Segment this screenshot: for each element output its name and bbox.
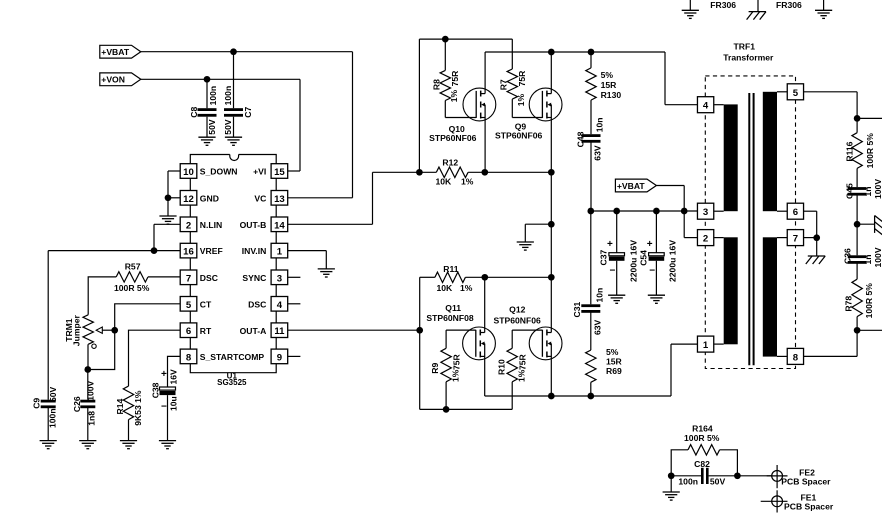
svg-text:PCB Spacer: PCB Spacer: [781, 477, 831, 487]
svg-text:+VBAT: +VBAT: [101, 47, 130, 57]
svg-text:7: 7: [793, 234, 798, 245]
svg-text:50V: 50V: [48, 386, 58, 402]
svg-text:1%: 1%: [449, 90, 459, 103]
svg-text:+VBAT: +VBAT: [617, 181, 646, 191]
svg-text:OUT-A: OUT-A: [240, 326, 267, 336]
svg-text:2200u 16V: 2200u 16V: [629, 240, 639, 282]
svg-text:C9: C9: [32, 398, 42, 409]
svg-text:+VI: +VI: [253, 167, 266, 177]
svg-text:12: 12: [183, 194, 194, 205]
svg-text:1: 1: [703, 340, 709, 351]
svg-text:C8: C8: [189, 106, 199, 117]
svg-text:15: 15: [274, 167, 285, 178]
svg-text:16: 16: [183, 247, 194, 258]
svg-text:SG3525: SG3525: [217, 378, 247, 387]
svg-text:C45: C45: [845, 183, 855, 199]
svg-text:8: 8: [793, 352, 799, 363]
svg-text:3: 3: [277, 273, 282, 284]
svg-text:R12: R12: [442, 157, 458, 167]
svg-text:Transformer: Transformer: [723, 52, 774, 62]
svg-text:R7: R7: [499, 79, 509, 90]
svg-text:100R 5%: 100R 5%: [114, 283, 150, 293]
svg-text:C37: C37: [599, 250, 609, 266]
svg-text:1%: 1%: [517, 369, 527, 382]
svg-text:R10: R10: [497, 359, 507, 375]
svg-text:+: +: [607, 239, 613, 250]
svg-text:4: 4: [277, 300, 283, 311]
svg-text:10n: 10n: [595, 117, 605, 132]
svg-text:TRF1: TRF1: [734, 42, 756, 52]
svg-text:6: 6: [793, 207, 798, 218]
svg-text:16V: 16V: [168, 369, 178, 385]
svg-text:4: 4: [703, 101, 709, 112]
svg-text:C48: C48: [576, 131, 586, 147]
svg-text:N.LIN: N.LIN: [200, 220, 222, 230]
svg-text:100n: 100n: [678, 477, 698, 487]
svg-text:5: 5: [186, 300, 192, 311]
svg-text:100n: 100n: [47, 408, 57, 428]
svg-text:R130: R130: [601, 90, 622, 100]
svg-text:R14: R14: [115, 399, 125, 415]
svg-text:VREF: VREF: [200, 246, 223, 256]
svg-text:63V: 63V: [593, 319, 603, 335]
svg-text:1%: 1%: [451, 369, 461, 382]
svg-text:10K: 10K: [437, 283, 454, 293]
svg-text:R57: R57: [125, 262, 141, 272]
svg-text:Q12: Q12: [509, 304, 525, 314]
svg-text:1n8: 1n8: [87, 411, 97, 426]
svg-text:S_DOWN: S_DOWN: [200, 167, 238, 177]
svg-text:50V: 50V: [223, 119, 233, 135]
svg-text:R8: R8: [432, 79, 442, 90]
svg-text:R69: R69: [606, 366, 622, 376]
svg-text:50V: 50V: [710, 477, 726, 487]
svg-text:STP60NF06: STP60NF06: [429, 133, 477, 143]
svg-text:1%: 1%: [461, 177, 474, 187]
svg-text:50V: 50V: [207, 119, 217, 135]
svg-text:Jumper: Jumper: [71, 315, 81, 347]
svg-text:1: 1: [277, 247, 283, 258]
svg-text:PCB Spacer: PCB Spacer: [784, 502, 834, 512]
svg-text:1n: 1n: [863, 254, 873, 264]
svg-text:C36: C36: [843, 248, 853, 264]
svg-text:+: +: [647, 239, 653, 250]
svg-text:STP60NF06: STP60NF06: [495, 131, 543, 141]
svg-text:C26: C26: [72, 396, 82, 412]
svg-text:−: −: [610, 266, 616, 277]
svg-text:100R 5%: 100R 5%: [865, 133, 875, 169]
svg-text:100n: 100n: [208, 86, 218, 106]
svg-text:DSC: DSC: [200, 273, 218, 283]
svg-text:75R: 75R: [518, 353, 528, 370]
svg-text:75R: 75R: [452, 353, 462, 370]
svg-text:OUT-B: OUT-B: [240, 220, 267, 230]
svg-text:5%: 5%: [606, 347, 619, 357]
svg-text:8: 8: [186, 352, 192, 363]
svg-text:2: 2: [186, 220, 191, 231]
svg-text:R116: R116: [845, 141, 855, 161]
svg-text:−: −: [161, 401, 167, 412]
svg-text:15R: 15R: [606, 357, 623, 367]
svg-text:+: +: [161, 369, 167, 380]
svg-text:INV.IN: INV.IN: [242, 246, 267, 256]
svg-text:14: 14: [274, 220, 285, 231]
svg-text:FR306: FR306: [776, 0, 802, 10]
svg-text:9: 9: [277, 352, 282, 363]
svg-text:9K53 1%: 9K53 1%: [133, 390, 143, 426]
svg-text:C38: C38: [151, 382, 161, 398]
svg-text:2200u 16V: 2200u 16V: [668, 240, 678, 282]
svg-text:C54: C54: [639, 250, 649, 266]
svg-text:VC: VC: [254, 193, 266, 203]
svg-text:Q11: Q11: [445, 303, 461, 313]
svg-text:+VON: +VON: [101, 75, 125, 85]
svg-text:−: −: [649, 266, 655, 277]
svg-text:75R: 75R: [450, 70, 460, 87]
svg-text:1%: 1%: [516, 94, 526, 107]
svg-text:1n: 1n: [863, 186, 873, 196]
svg-text:75R: 75R: [517, 70, 527, 87]
svg-text:100V: 100V: [873, 247, 882, 267]
svg-text:100n: 100n: [223, 86, 233, 106]
svg-text:R11: R11: [443, 264, 459, 274]
svg-text:R9: R9: [430, 362, 440, 373]
svg-text:STP60NF06: STP60NF06: [494, 315, 542, 325]
svg-text:100R 5%: 100R 5%: [684, 433, 720, 443]
svg-text:3: 3: [703, 207, 708, 218]
svg-text:6: 6: [186, 326, 191, 337]
svg-text:7: 7: [186, 273, 191, 284]
svg-text:10u: 10u: [169, 396, 179, 411]
svg-text:R78: R78: [843, 296, 853, 312]
svg-text:SYNC: SYNC: [242, 273, 266, 283]
svg-text:100V: 100V: [873, 179, 882, 199]
svg-text:2: 2: [703, 234, 708, 245]
svg-text:13: 13: [274, 194, 285, 205]
svg-text:5%: 5%: [601, 70, 614, 80]
svg-text:GND: GND: [200, 193, 219, 203]
svg-text:10n: 10n: [595, 288, 605, 303]
svg-text:C82: C82: [694, 459, 710, 469]
svg-text:RT: RT: [200, 326, 212, 336]
svg-text:100V: 100V: [86, 380, 96, 400]
svg-text:11: 11: [274, 326, 285, 337]
svg-text:C7: C7: [243, 106, 253, 117]
svg-text:FR306: FR306: [710, 0, 736, 10]
svg-text:100R 5%: 100R 5%: [864, 283, 874, 319]
svg-text:63V: 63V: [593, 145, 603, 161]
svg-text:C31: C31: [572, 302, 582, 318]
svg-text:15R: 15R: [601, 80, 618, 90]
svg-text:10: 10: [183, 167, 194, 178]
svg-text:DSC: DSC: [248, 299, 266, 309]
svg-text:5: 5: [793, 88, 799, 99]
svg-text:10K: 10K: [436, 177, 453, 187]
svg-text:S_STARTCOMP: S_STARTCOMP: [200, 352, 265, 362]
svg-text:1%: 1%: [460, 283, 473, 293]
svg-text:STP60NF08: STP60NF08: [426, 313, 474, 323]
svg-text:CT: CT: [200, 299, 212, 309]
